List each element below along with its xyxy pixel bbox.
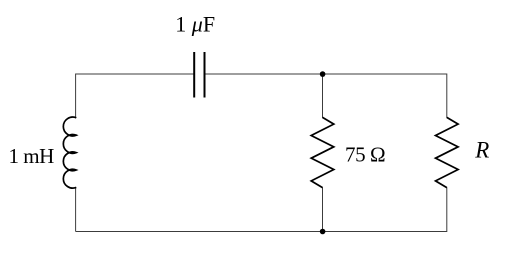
wire: top rail, node A to top-right corner xyxy=(323,74,447,118)
wire: middle branch upper stub (node A to resistor 75 ohm) xyxy=(322,74,324,118)
resistor R1 (75 ohm) zigzag xyxy=(311,117,334,187)
resistor R2 (R) zigzag xyxy=(436,117,459,187)
capacitor C1 (1 uF) left plate xyxy=(193,52,195,98)
wire: bottom rail, node B to bottom-right corner xyxy=(323,187,447,231)
wire: top rail, capacitor right plate to node A xyxy=(205,73,323,75)
svg-text:R: R xyxy=(474,137,489,162)
svg-text:1 mH: 1 mH xyxy=(9,144,55,168)
svg-text:1 μF: 1 μF xyxy=(175,12,215,37)
wire: top rail, left segment (top-left corner to capacitor left plate) xyxy=(76,74,195,118)
wire: bottom rail, bottom-left corner to node B xyxy=(76,231,323,233)
wire: left branch, lower segment (inductor bottom to bottom-left corner) xyxy=(75,187,77,231)
capacitor C1 (1 uF) right plate xyxy=(204,52,206,98)
node B junction dot (bottom) xyxy=(320,229,326,235)
node A junction dot (top) xyxy=(320,71,326,77)
wire: middle branch lower stub (resistor 75 ohm to node B) xyxy=(322,187,324,231)
svg-text:75 Ω: 75 Ω xyxy=(345,143,385,167)
inductor L1 (1 mH) coil of 4 loops xyxy=(63,117,76,188)
